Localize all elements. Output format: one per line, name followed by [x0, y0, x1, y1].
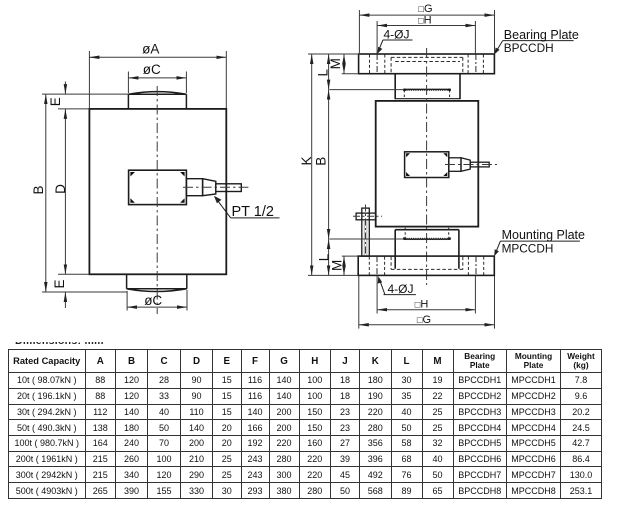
svg-text:□G: □G — [417, 314, 431, 326]
dimension ØC (bottom) — [127, 290, 187, 311]
connector center line (front view) — [183, 186, 248, 188]
load cell body (side view) — [376, 101, 479, 227]
dimension E (bottom) — [64, 292, 66, 308]
connector center line (side view) — [445, 164, 497, 166]
shipping bolt center lines — [365, 205, 367, 257]
nameplate (side view) — [405, 152, 449, 178]
nameplate (front view) — [129, 170, 187, 204]
bottom load button cap — [127, 274, 187, 291]
dimension ØC (top) — [128, 72, 186, 94]
top load button cap — [128, 92, 186, 109]
label 4-ØJ (bottom) with leader — [380, 280, 416, 295]
dimension square-H (bottom) — [377, 276, 475, 314]
svg-text:øC: øC — [143, 62, 161, 77]
mounting plate bolt holes (hidden lines, right) — [468, 257, 483, 275]
svg-text:□H: □H — [418, 15, 432, 27]
svg-text:BPCCDH: BPCCDH — [504, 41, 554, 55]
clipped caption: Dimensions: mm — [15, 342, 145, 346]
top cap (side view) — [395, 74, 460, 100]
top button serrated contact — [404, 88, 449, 91]
vertical center line (side view) — [426, 48, 428, 285]
mounting plate bolt holes (hidden lines, left) — [369, 257, 384, 275]
dimension B (right view) — [329, 90, 404, 239]
dimension square-G (top) — [359, 10, 494, 53]
load cell body (front view) — [89, 109, 226, 274]
svg-text:M: M — [328, 58, 343, 69]
svg-text:4-ØJ: 4-ØJ — [384, 28, 410, 42]
bearing plate bolt holes (hidden lines, left) — [370, 55, 385, 74]
dimension E (top) — [64, 82, 66, 95]
dimension M (top) — [342, 54, 359, 74]
svg-text:øA: øA — [142, 42, 159, 57]
label PT 1/2 with leader — [216, 198, 280, 218]
nameplate corner marks (side view) — [406, 153, 447, 176]
label Bearing Plate / BPCCDH with leader — [496, 41, 573, 52]
dimension square-G (bottom) — [359, 276, 495, 329]
svg-text:Mounting Plate: Mounting Plate — [502, 228, 585, 242]
dimension square-H (top) — [377, 21, 475, 54]
bottom button serrated contact — [405, 228, 449, 238]
svg-text:øC: øC — [144, 293, 162, 308]
cable connector (front view) — [186, 179, 241, 196]
svg-text:K: K — [299, 156, 314, 165]
dimension L (top) — [329, 54, 405, 90]
svg-text:E: E — [48, 97, 63, 106]
shipping bolt — [356, 208, 376, 256]
bearing plate recess (hidden) — [391, 57, 463, 73]
svg-text:MPCCDH: MPCCDH — [502, 241, 554, 255]
svg-text:□G: □G — [418, 3, 432, 15]
label 4-ØJ (top) with leader — [379, 40, 413, 51]
svg-text:B: B — [313, 157, 328, 166]
dimension K (left, full height) — [308, 54, 359, 275]
dimension L (bottom) — [328, 239, 330, 275]
svg-text:□H: □H — [415, 299, 429, 311]
svg-text:4-ØJ: 4-ØJ — [388, 282, 414, 296]
bearing plate bolt holes (hidden lines, right) — [468, 55, 483, 74]
specification table — [8, 349, 602, 499]
svg-text:PT 1/2: PT 1/2 — [232, 204, 274, 220]
mounting plate recess (hidden) — [391, 257, 463, 270]
bearing plate (top) — [359, 54, 495, 74]
dimension ØA — [89, 51, 226, 108]
bottom cap (side view) — [395, 230, 459, 269]
svg-text:D: D — [53, 184, 68, 194]
dimension M (bottom) — [342, 256, 358, 275]
label Mounting Plate / MPCCDH with leader — [496, 241, 580, 253]
svg-text:M: M — [330, 260, 345, 271]
svg-text:B: B — [31, 185, 46, 194]
svg-text:Bearing Plate: Bearing Plate — [504, 28, 579, 42]
cable connector (side view) — [449, 158, 489, 172]
dimension D (left) — [58, 109, 89, 274]
svg-text:E: E — [52, 279, 67, 288]
dimension B (left) — [42, 94, 128, 292]
mounting plate (bottom) — [358, 256, 494, 275]
vertical center line (front view) — [156, 86, 158, 314]
nameplate corner marks — [130, 172, 184, 203]
